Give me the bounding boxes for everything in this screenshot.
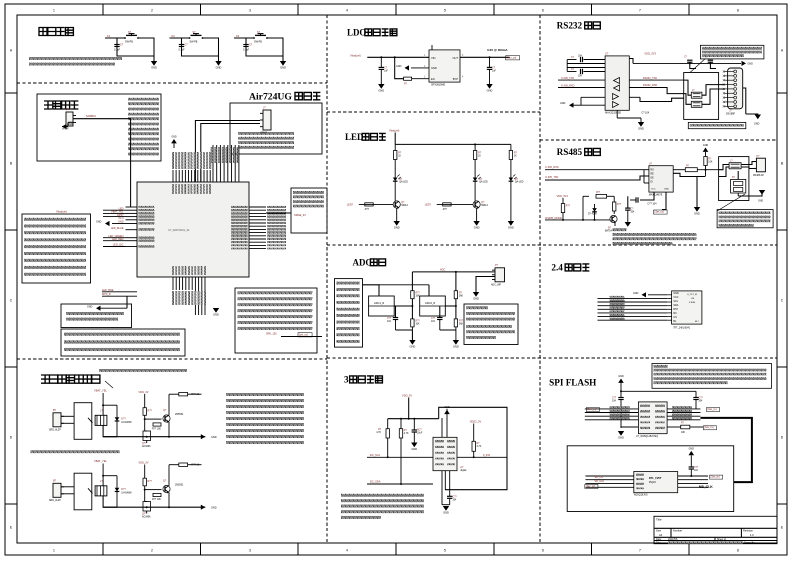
svg-text:SMAE_3V: SMAE_3V bbox=[294, 213, 306, 217]
svg-text:1K: 1K bbox=[398, 156, 401, 158]
relay K1 body bbox=[74, 403, 92, 440]
svg-text:R??: R?? bbox=[416, 293, 421, 295]
svg-text:V3.3: V3.3 bbox=[118, 217, 124, 220]
RS485 right outer box bbox=[719, 157, 749, 201]
ADC resistor box ADC2_R bbox=[420, 296, 446, 316]
vertical section divider x=327 bbox=[326, 15, 328, 543]
svg-text:DI: DI bbox=[651, 182, 654, 184]
svg-text:VIN: VIN bbox=[431, 56, 435, 60]
svg-text:digital: digital bbox=[460, 469, 466, 472]
svg-text:AO3406: AO3406 bbox=[142, 516, 151, 519]
connector P-relay1 bbox=[53, 413, 61, 427]
horizontal divider middle/right y=245 bbox=[327, 244, 777, 246]
RS232 buffer triangles bbox=[614, 78, 620, 84]
ground arrow relay2 bbox=[201, 505, 206, 510]
choke L1 RS232 bbox=[691, 92, 702, 98]
svg-text:QA-LED: QA-LED bbox=[399, 181, 408, 184]
svg-text:SRD_AL2P: SRD_AL2P bbox=[49, 499, 61, 502]
svg-text:GND: GND bbox=[618, 435, 624, 439]
wire relay1 connector bbox=[61, 415, 74, 417]
svg-text:VIN2P: VIN2P bbox=[62, 129, 69, 131]
svg-text:5: 5 bbox=[444, 549, 446, 553]
RS485 TVS box bbox=[731, 179, 746, 193]
EN resistor LDO bbox=[404, 77, 412, 80]
wire key K2 top bbox=[170, 37, 190, 39]
svg-text:GND: GND bbox=[396, 65, 402, 68]
svg-text:4: 4 bbox=[346, 9, 348, 13]
svg-text:Drawn By:: Drawn By: bbox=[744, 541, 755, 544]
mode pull resistor 1 bbox=[562, 198, 564, 204]
ADC mid wires bbox=[394, 305, 412, 307]
svg-text:RS485-AP: RS485-AP bbox=[753, 174, 764, 177]
wire VBB_3V3 bbox=[281, 336, 322, 338]
svg-text:GND: GND bbox=[96, 221, 102, 224]
LCD connector body bbox=[672, 291, 702, 324]
svg-text:RS232_RXD: RS232_RXD bbox=[643, 84, 658, 87]
svg-text:C??: C?? bbox=[453, 497, 458, 499]
svg-text:ADC2_R: ADC2_R bbox=[425, 301, 435, 305]
RS232 VCC rail bbox=[629, 59, 633, 64]
svg-text:GND: GND bbox=[443, 510, 449, 514]
svg-text:Air724UG: Air724UG bbox=[249, 92, 292, 103]
svg-text:10K: 10K bbox=[681, 432, 686, 434]
RS485 transceiver U? body bbox=[649, 166, 673, 192]
push button switch S-K2 bbox=[189, 37, 191, 39]
svg-text:RS232_TXD: RS232_TXD bbox=[643, 77, 657, 80]
U1 top pin wires group2 bbox=[212, 145, 214, 182]
svg-text:GND: GND bbox=[694, 211, 700, 215]
svg-text:GND: GND bbox=[754, 123, 760, 126]
SD left wires bbox=[585, 475, 633, 477]
bottom margin zone ticks bbox=[102, 543, 104, 555]
svg-text:RE: RE bbox=[651, 174, 655, 176]
wire relay2 connector bbox=[61, 486, 74, 488]
relay K1 coil bbox=[95, 415, 107, 425]
wire core connector to IC top 2 bbox=[201, 124, 260, 183]
svg-text:R?? 10K: R?? 10K bbox=[152, 499, 161, 501]
emitter to ground 475.1 bbox=[476, 208, 478, 221]
LCD pin stub wires bbox=[667, 294, 672, 296]
mode resistor horizontal bbox=[596, 194, 607, 198]
svg-text:6: 6 bbox=[542, 9, 544, 13]
svg-text:SPX3819M5: SPX3819M5 bbox=[431, 83, 446, 86]
SD power arrow bbox=[689, 451, 695, 455]
SD flash U? body bbox=[634, 472, 678, 493]
ADC resistor box ADC1_R bbox=[369, 296, 395, 316]
svg-text:2N5551: 2N5551 bbox=[175, 413, 184, 416]
SPI inline cap bbox=[618, 397, 623, 399]
svg-text:25Q16: 25Q16 bbox=[649, 482, 657, 484]
capacitor key K1 bbox=[116, 38, 118, 45]
svg-text:OUT: OUT bbox=[453, 56, 459, 60]
wire key K3 top bbox=[234, 37, 254, 39]
svg-text:S9014: S9014 bbox=[401, 205, 408, 207]
resistor R-led 395.2 bbox=[394, 151, 397, 160]
accelerometer U? body bbox=[433, 437, 457, 470]
SD cap bbox=[689, 466, 694, 468]
ground DB9 bbox=[755, 115, 761, 120]
svg-text:LDO: LDO bbox=[347, 27, 366, 37]
LCD ground arrow wire bbox=[648, 294, 667, 296]
section title 'relay output control' bbox=[41, 375, 49, 383]
svg-text:C??: C?? bbox=[431, 318, 436, 320]
svg-text:C??: C?? bbox=[694, 467, 699, 469]
ground arrow power input bbox=[68, 121, 73, 123]
RS232 DB9 connector body bbox=[728, 68, 743, 109]
svg-text:GND: GND bbox=[394, 225, 400, 229]
ADC connector gnd wire bbox=[476, 277, 495, 293]
right margin zone ticks bbox=[777, 92, 787, 94]
svg-text:GND: GND bbox=[508, 225, 514, 229]
ground arrow relay1 bbox=[201, 434, 206, 439]
svg-text:GND: GND bbox=[280, 65, 286, 69]
svg-text:EN: EN bbox=[431, 77, 435, 81]
charge pump side wires bbox=[566, 60, 568, 72]
svg-text:QA-LED: QA-LED bbox=[515, 181, 524, 184]
svg-text:LM: LM bbox=[691, 298, 694, 300]
svg-text:MTR_R: MTR_R bbox=[102, 293, 111, 296]
svg-text:Q??: Q?? bbox=[142, 514, 147, 516]
svg-text:Number: Number bbox=[673, 529, 682, 533]
note box left of U1 (VBAT note) bbox=[22, 214, 91, 283]
wire R to gate relay1 bbox=[144, 415, 146, 431]
wire key K1 right bbox=[117, 38, 154, 56]
charge pump capacitor C2 bbox=[567, 71, 576, 73]
power arrow above U1 bbox=[171, 139, 177, 143]
sensor top pins bbox=[441, 418, 443, 437]
mode transistor bbox=[610, 215, 617, 222]
LDO regulator U? body bbox=[429, 50, 460, 82]
svg-text:RC: RC bbox=[673, 312, 677, 315]
svg-text:R??: R?? bbox=[596, 192, 601, 194]
svg-text:VDD2_3V: VDD2_3V bbox=[470, 420, 482, 424]
wire collector relay1 bbox=[168, 394, 170, 415]
svg-text:TFT_24|ILI9341: TFT_24|ILI9341 bbox=[673, 326, 691, 329]
svg-text:MAX13487E: MAX13487E bbox=[649, 193, 663, 196]
svg-text:GND: GND bbox=[171, 137, 176, 139]
vertical section divider x=540 bbox=[539, 15, 541, 543]
relay K2 body bbox=[74, 473, 92, 510]
svg-text:GND: GND bbox=[453, 344, 459, 348]
mode diode bbox=[592, 208, 597, 212]
svg-text:AO3406: AO3406 bbox=[142, 445, 151, 448]
bottom note box under U1 bbox=[235, 288, 317, 353]
wire key K1 top bbox=[105, 37, 125, 39]
wire LED to transistor 395.2 bbox=[394, 181, 396, 201]
svg-text:[3av_1v]: [3av_1v] bbox=[586, 485, 595, 488]
svg-text:GND: GND bbox=[473, 296, 479, 300]
svg-text:K.405_RXD: K.405_RXD bbox=[545, 166, 558, 169]
ground mode emitter bbox=[614, 223, 616, 227]
svg-text:VBAT_YEL: VBAT_YEL bbox=[94, 389, 107, 393]
svg-text:10K: 10K bbox=[708, 162, 713, 164]
collector resistor relay1 bbox=[169, 393, 179, 395]
ground arrow VCC rail bbox=[742, 61, 747, 66]
section title 'power input' bbox=[44, 101, 52, 109]
RS485 B wire bbox=[673, 173, 705, 176]
svg-text:U?_W25Q128JVSIQ: U?_W25Q128JVSIQ bbox=[636, 435, 658, 438]
relay K2 contact bbox=[88, 488, 93, 493]
LED branch wire at x=510.9 bbox=[510, 144, 512, 150]
svg-text:File:: File: bbox=[656, 541, 661, 544]
svg-text:BYP: BYP bbox=[453, 77, 458, 81]
sensor R-a to SCL wire bbox=[387, 438, 389, 457]
LED diode D 510.9 bbox=[509, 178, 514, 182]
wire VBAT to coil relay2 bbox=[102, 464, 104, 486]
svg-text:0.1uF: 0.1uF bbox=[243, 49, 250, 52]
SPI right wire labels bbox=[672, 406, 692, 408]
U1 right pin names bbox=[231, 206, 248, 208]
svg-text:2021/5/8: 2021/5/8 bbox=[668, 538, 678, 541]
RS485 pullup resistor bbox=[705, 152, 707, 157]
svg-text:GND: GND bbox=[211, 436, 217, 439]
svg-text:R??: R?? bbox=[148, 480, 153, 483]
svg-text:R??: R?? bbox=[365, 209, 370, 211]
svg-text:GND: GND bbox=[673, 292, 679, 295]
wire VBAT to coil relay1 bbox=[102, 393, 104, 415]
relay note line 2 bbox=[31, 451, 120, 454]
svg-text:4.7K: 4.7K bbox=[477, 446, 482, 448]
U1 right net labels bbox=[267, 206, 286, 208]
SPI thick connecting wire bbox=[700, 418, 752, 482]
wire left net 5 bbox=[103, 240, 126, 242]
RS232 note box top bbox=[700, 45, 764, 59]
svg-text:K1: K1 bbox=[107, 34, 111, 38]
ground under U1 bottom bbox=[213, 308, 219, 313]
svg-text:2: 2 bbox=[151, 549, 153, 553]
push button switch S-K1 bbox=[124, 37, 126, 39]
svg-text:GND: GND bbox=[618, 375, 624, 378]
svg-text:3.3V @ 300mA: 3.3V @ 300mA bbox=[487, 48, 508, 52]
svg-text:QA-LED: QA-LED bbox=[479, 181, 488, 184]
svg-text:W25Q16JVS: W25Q16JVS bbox=[634, 494, 648, 497]
sensor resistor R-b bbox=[400, 419, 402, 429]
svg-text:VDD_3V: VDD_3V bbox=[138, 460, 148, 464]
wire left net 1 bbox=[103, 209, 126, 211]
svg-text:LED: LED bbox=[345, 132, 364, 142]
ADC formula note box bbox=[464, 304, 518, 345]
svg-text:R??: R?? bbox=[617, 204, 622, 206]
MOSFET Q AO3400 relay2 bbox=[145, 501, 147, 503]
push button switch S-K3 bbox=[253, 37, 255, 39]
svg-text:1.0: 1.0 bbox=[750, 533, 754, 537]
ADC top wire from note box bbox=[363, 285, 380, 296]
resistor R-led 510.9 bbox=[509, 151, 512, 160]
svg-text:8: 8 bbox=[737, 9, 739, 13]
base wire and resistor relay1 bbox=[145, 418, 158, 420]
svg-text:C?? 104: C?? 104 bbox=[647, 202, 657, 205]
svg-text:RTL_F25T: RTL_F25T bbox=[649, 476, 662, 480]
SD right wires bbox=[678, 475, 708, 477]
U1 top pin vertical labels group2 bbox=[211, 147, 213, 163]
LED branch wire at x=395.2 bbox=[394, 144, 396, 150]
svg-text:Revision: Revision bbox=[743, 529, 754, 533]
DB9 pin circles bbox=[734, 70, 737, 73]
svg-text:R??: R?? bbox=[459, 321, 464, 323]
RS485 box internal wires bbox=[719, 165, 730, 170]
svg-text:LED?: LED? bbox=[347, 204, 354, 207]
svg-text:VCC: VCC bbox=[651, 189, 656, 191]
svg-text:K.405_TXD: K.405_TXD bbox=[545, 176, 558, 179]
transistor Q1 2N5551 bbox=[163, 415, 170, 422]
svg-text:GND: GND bbox=[213, 312, 219, 316]
svg-text:ADC: ADC bbox=[440, 269, 445, 272]
svg-text:VCC: VCC bbox=[673, 296, 678, 299]
svg-text:K2: K2 bbox=[172, 34, 176, 38]
svg-text:GND: GND bbox=[151, 65, 157, 69]
svg-text:Sheet of: Sheet of bbox=[717, 538, 726, 541]
svg-text:GND: GND bbox=[431, 66, 437, 70]
RS232 right stub wires bbox=[629, 96, 640, 98]
svg-text:SRD_AL2P: SRD_AL2P bbox=[49, 429, 61, 432]
wire coil bottom relay2 bbox=[103, 496, 117, 507]
power arrow sensor top bbox=[444, 410, 450, 414]
SPI sub box bbox=[567, 446, 734, 512]
svg-text:[3av_1v]: [3av_1v] bbox=[704, 426, 713, 429]
RS232 transceiver U? body bbox=[605, 56, 629, 110]
svg-text:Vbat(yel): Vbat(yel) bbox=[389, 129, 400, 133]
svg-text:1K: 1K bbox=[514, 156, 517, 158]
svg-text:DE: DE bbox=[651, 178, 655, 180]
svg-text:USB-P: USB-P bbox=[260, 133, 267, 135]
capacitor key K3 bbox=[245, 38, 247, 45]
svg-text:1N4148W: 1N4148W bbox=[121, 422, 132, 424]
boxed label 3V3 right bbox=[707, 408, 720, 412]
wire R to LED 475.1 bbox=[474, 160, 476, 178]
svg-text:ADC: ADC bbox=[353, 257, 372, 267]
svg-text:MAX3232ESE: MAX3232ESE bbox=[605, 111, 621, 114]
wire connector to rail bbox=[494, 271, 496, 273]
svg-text:SD_CLK: SD_CLK bbox=[595, 480, 605, 483]
wire left net 4 bbox=[103, 237, 126, 239]
SPI left wires bbox=[585, 408, 639, 410]
ground C-in LDO bbox=[380, 69, 382, 84]
svg-text:1: 1 bbox=[53, 9, 55, 13]
wire to EN resistor bbox=[395, 57, 404, 78]
U1 bottom pin vertical labels bbox=[172, 291, 174, 305]
svg-text:GND: GND bbox=[474, 225, 480, 229]
svg-text:K.405_TXD: K.405_TXD bbox=[561, 77, 574, 80]
svg-text:ADC1_R: ADC1_R bbox=[374, 301, 384, 305]
ADC ground under connector bbox=[473, 292, 479, 297]
svg-text:3: 3 bbox=[249, 549, 251, 553]
svg-text:R??: R?? bbox=[443, 209, 448, 211]
svg-text:[3av_yv]: [3av_yv] bbox=[708, 408, 717, 411]
SPI VDD wire down bbox=[620, 383, 622, 398]
svg-text:S9014: S9014 bbox=[481, 205, 488, 207]
svg-text:C??: C?? bbox=[387, 318, 392, 320]
ADC resistor lower R bbox=[411, 319, 414, 327]
VCC rail capacitor 1 bbox=[689, 59, 691, 64]
RS485 pullup power arrow bbox=[703, 148, 709, 152]
svg-text:GND: GND bbox=[378, 88, 384, 92]
svg-text:10K: 10K bbox=[416, 324, 421, 326]
title block title row bbox=[654, 527, 777, 529]
svg-text:GND: GND bbox=[87, 305, 93, 308]
wire LED pair 2 bbox=[102, 295, 137, 297]
svg-text:SRK_150: SRK_150 bbox=[266, 333, 277, 336]
svg-text:0.1uF: 0.1uF bbox=[179, 49, 186, 52]
svg-text:0.1uF: 0.1uF bbox=[114, 49, 121, 52]
svg-text:GND: GND bbox=[411, 447, 417, 451]
sensor capacitor C bbox=[413, 419, 415, 430]
VCC rail capacitor 2 bbox=[708, 59, 713, 61]
isolation internal wires bbox=[684, 80, 692, 95]
transistor Q-led 395.2 bbox=[393, 201, 400, 208]
U1 top pin wires group1 bbox=[172, 170, 174, 182]
sensor top rail bbox=[408, 398, 410, 419]
transistor Q-led 475.1 bbox=[473, 201, 480, 208]
relay note line 1 bbox=[99, 369, 187, 372]
svg-text:NC?: NC? bbox=[417, 430, 422, 432]
svg-text:C? 104: C? 104 bbox=[641, 112, 649, 115]
ground under RS232 bbox=[640, 118, 642, 122]
horizontal divider left column y=83 bbox=[17, 82, 327, 84]
U1 left pin names bbox=[139, 206, 155, 208]
SPI left wire labels bbox=[610, 406, 630, 408]
resistor R-led 475.1 bbox=[473, 151, 476, 160]
svg-text:GND: GND bbox=[216, 65, 222, 69]
Air724UG module U1 body bbox=[137, 182, 249, 277]
svg-text:4: 4 bbox=[346, 549, 348, 553]
connector P1 VIN bbox=[66, 112, 73, 126]
SPI note box bbox=[652, 364, 772, 389]
svg-text:RS485: RS485 bbox=[557, 147, 583, 157]
choke L2 RS232 bbox=[691, 101, 702, 107]
svg-text:VDD_3V3: VDD_3V3 bbox=[557, 195, 569, 198]
horizontal divider left column y=359 bbox=[17, 358, 327, 360]
note text under keys section bbox=[29, 57, 122, 60]
relay K1 contact bbox=[88, 418, 93, 423]
bottom rail relay2 bbox=[103, 506, 205, 508]
svg-text:GND: GND bbox=[67, 122, 73, 126]
wire from U1 to note box bbox=[266, 212, 291, 214]
LCD signal wires bbox=[598, 297, 668, 299]
relay section note text bbox=[226, 393, 304, 396]
ground arrow PWRKEY bbox=[96, 306, 101, 311]
svg-text:C??: C?? bbox=[612, 398, 617, 400]
MOSFET Q AO3400 relay1 bbox=[145, 430, 147, 432]
svg-text:DSUB9F: DSUB9F bbox=[726, 114, 736, 116]
ADC note box left bbox=[335, 279, 363, 348]
U1 top pin vertical labels group1 bbox=[172, 152, 174, 169]
connector P-relay2 bbox=[53, 483, 61, 497]
ADC ground 1 bbox=[396, 329, 413, 331]
ADC ground 2 bbox=[440, 329, 456, 331]
svg-text:6_R.R: 6_R.R bbox=[483, 454, 490, 457]
collector resistor relay2 bbox=[169, 464, 179, 466]
capacitor C-out LDO bbox=[489, 57, 491, 67]
wire coil bottom relay1 bbox=[103, 425, 117, 436]
LDO output wire bbox=[460, 56, 510, 58]
svg-text:1K: 1K bbox=[478, 156, 481, 158]
svg-text:7: 7 bbox=[639, 9, 641, 13]
ground arrow U1 left bbox=[112, 223, 126, 225]
SPI right row5 resistor bbox=[667, 426, 681, 428]
top margin zone ticks bbox=[102, 4, 104, 15]
svg-text:3: 3 bbox=[249, 9, 251, 13]
svg-text:RS?: RS? bbox=[673, 308, 678, 311]
RS232 note box bottom bbox=[688, 122, 746, 128]
LED diode D 475.1 bbox=[473, 178, 478, 182]
boxed net label yel_yv bbox=[298, 333, 312, 337]
LDO input wire bbox=[367, 56, 429, 58]
svg-text:D? 4148: D? 4148 bbox=[588, 214, 597, 216]
svg-text:D??: D?? bbox=[121, 488, 126, 491]
flyback diode D2 1N4148 bbox=[116, 476, 118, 488]
sensor cap ground bbox=[413, 432, 415, 443]
ground RS485 TVS bbox=[737, 193, 739, 196]
